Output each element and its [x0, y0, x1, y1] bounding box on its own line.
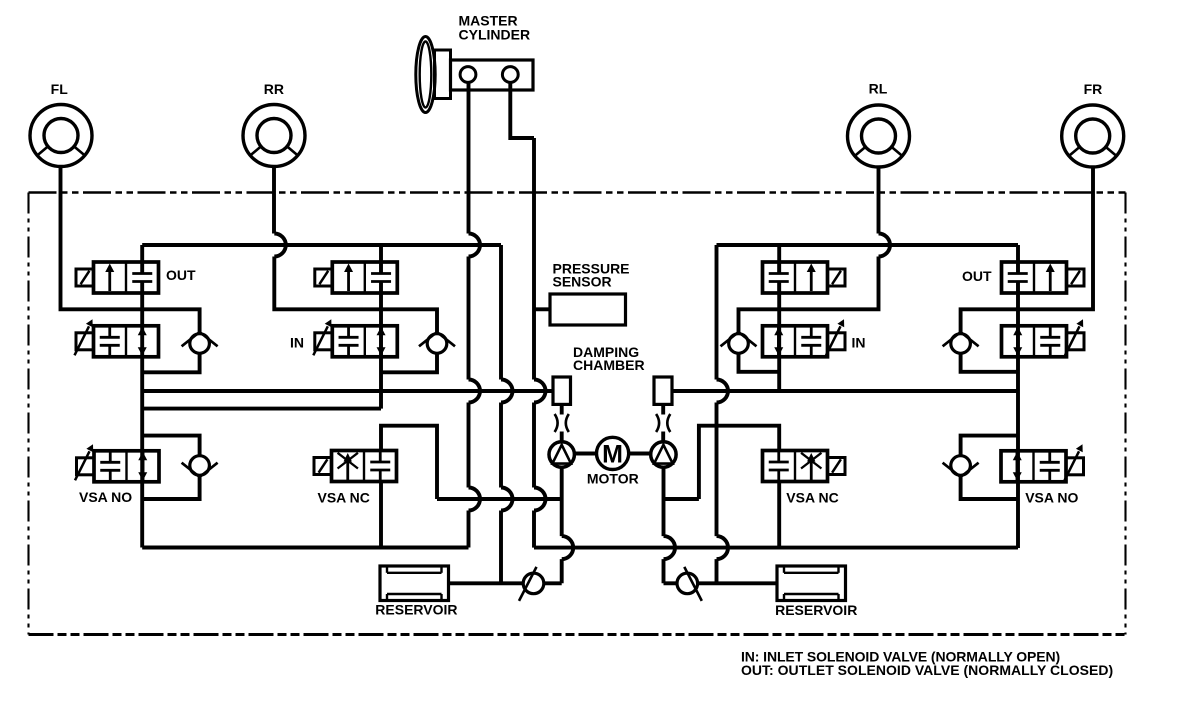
- modulator unit boundary (dash-dot border): [29, 193, 1126, 635]
- check valve VSA NO left (bypass): [182, 456, 218, 477]
- wire suction left to check valve: [544, 581, 562, 585]
- wire VSA NO left check branch top: [142, 436, 199, 456]
- wire hop port2 over pump suction bus: [534, 488, 546, 511]
- wire hop port1 over pump suction bus: [469, 488, 481, 511]
- wire check valve RL return: [739, 353, 780, 372]
- wire outlet bus right: [717, 243, 1019, 247]
- svg-text:OUT: OUT: [962, 268, 992, 284]
- wire hop suction-left over supply bus: [562, 536, 574, 559]
- wire reservoir right line: [698, 581, 777, 585]
- wire check valve FL return: [142, 353, 199, 372]
- wire hop port1 over outlet bus: [469, 234, 481, 257]
- valve VSA NO right: [1001, 444, 1084, 482]
- svg-text:VSA NC: VSA NC: [318, 490, 370, 506]
- svg-text:SENSOR: SENSOR: [553, 274, 612, 290]
- wire reservoir left line: [449, 581, 524, 585]
- svg-text:CHAMBER: CHAMBER: [573, 357, 645, 373]
- wire check valve RR return: [381, 353, 437, 372]
- wire RR branch: [274, 257, 437, 335]
- master cylinder booster disc: [416, 37, 435, 113]
- svg-text:M: M: [602, 440, 623, 468]
- check valve VSA NO right (bypass): [943, 456, 979, 477]
- wire master cylinder port 1 drop: [467, 82, 471, 547]
- wire hop dump-left over pump suction bus: [501, 488, 513, 511]
- pressure sensor: [550, 294, 626, 325]
- wire damping right to orifice: [661, 404, 665, 414]
- valve VSA NO left: [75, 444, 159, 482]
- wire hop dump-right over pump outlet bus: [717, 380, 729, 403]
- wire pump suction bus left: [437, 497, 562, 501]
- wire hop RL over outlet bus: [879, 234, 891, 257]
- wire pump outlet bus left: [142, 389, 553, 393]
- wire VSA NO left check branch bottom: [142, 475, 199, 499]
- check valve RR (bypass): [419, 332, 455, 353]
- valve OUT RR (outlet solenoid): [315, 262, 398, 293]
- valve IN RR (inlet solenoid): [313, 319, 397, 357]
- svg-text:FL: FL: [51, 81, 69, 97]
- svg-text:IN: IN: [852, 335, 866, 351]
- check valve reservoir left: [519, 567, 544, 601]
- valve IN FR (inlet solenoid): [1002, 319, 1085, 357]
- wire RL branch: [739, 257, 879, 335]
- wire FL wheel to IN/OUT node (FL branch): [61, 167, 200, 335]
- wire motor to pump right: [629, 452, 651, 456]
- check valve reservoir right: [677, 567, 702, 601]
- check valve RL (bypass): [721, 332, 757, 353]
- valve OUT RL (outlet solenoid): [763, 262, 846, 293]
- wire check valve FR return: [961, 353, 1018, 372]
- wire VSA NO right check branch top: [961, 436, 1018, 456]
- wire orifice left to pump: [560, 432, 564, 443]
- pump right: [651, 442, 676, 467]
- wire FR branch: [961, 168, 1093, 335]
- wheel RL: [848, 105, 910, 167]
- wire VSA NC right bottom: [777, 482, 781, 548]
- wheel FR: [1062, 105, 1124, 167]
- wire pump right suction: [662, 467, 666, 583]
- wire outlet bus left: [142, 243, 501, 247]
- svg-text:RESERVOIR: RESERVOIR: [375, 602, 457, 618]
- wire master cylinder port 2 drop: [510, 82, 534, 138]
- orifice left: [555, 414, 569, 432]
- wire RL wheel drop: [877, 168, 881, 234]
- wire orifice right to pump: [661, 432, 665, 443]
- check valve FL (bypass): [182, 332, 218, 353]
- wire outlet dump left: [499, 245, 503, 583]
- wire column FL (main line through OUT/IN/VSA NO valves): [140, 245, 144, 548]
- damping chamber right: [654, 377, 672, 404]
- wire column RL: [777, 245, 781, 391]
- svg-text:VSA NO: VSA NO: [79, 489, 132, 505]
- wire pump outlet bus right: [672, 389, 1018, 393]
- svg-text:MOTOR: MOTOR: [587, 471, 639, 487]
- wire hop dump-left over pump outlet bus: [501, 380, 513, 403]
- wire VSA NC right to pump suction: [699, 426, 779, 499]
- svg-text:RR: RR: [264, 81, 284, 97]
- svg-text:RL: RL: [869, 81, 888, 97]
- label DAMPING CHAMBER: [573, 344, 645, 373]
- wheel RR: [243, 105, 305, 167]
- wire RR wheel drop: [272, 167, 276, 234]
- valve OUT FR (outlet solenoid): [1002, 262, 1085, 293]
- wire damping left to orifice: [560, 404, 564, 414]
- label MASTER CYLINDER: [459, 13, 531, 43]
- wire column RR: [379, 245, 383, 409]
- wire pump left to motor: [574, 452, 596, 456]
- legend note: [741, 648, 1113, 678]
- wire pump left suction: [560, 467, 564, 583]
- valve OUT FL (outlet solenoid): [76, 262, 159, 293]
- svg-text:RESERVOIR: RESERVOIR: [775, 602, 857, 618]
- master cylinder port 2: [502, 67, 518, 83]
- wire pressure sensor tap: [534, 307, 550, 311]
- svg-text:OUT: OUTLET SOLENOID VALVE (NO: OUT: OUTLET SOLENOID VALVE (NORMALLY CLO…: [741, 662, 1113, 678]
- wire hop dump-right over supply bus: [717, 536, 729, 559]
- wire column FR: [1016, 245, 1020, 548]
- wire VSA NO right check branch bottom: [961, 475, 1018, 499]
- wire hop port2 over pump outlet bus: [534, 380, 546, 403]
- svg-text:VSA NC: VSA NC: [786, 490, 838, 506]
- wire hop RR over outlet bus: [274, 234, 286, 257]
- wheel FL: [30, 105, 92, 167]
- wire bus B left (column FL to column RR): [142, 407, 381, 411]
- motor M1: [597, 437, 629, 469]
- wire hop suction-right over supply bus: [664, 536, 676, 559]
- master cylinder body: [435, 50, 534, 99]
- svg-text:OUT: OUT: [166, 267, 196, 283]
- reservoir left: [380, 566, 449, 601]
- wire pump suction bus right: [664, 497, 699, 501]
- wire outlet dump right: [715, 245, 719, 583]
- valve IN FL (inlet solenoid): [75, 319, 159, 357]
- reservoir right: [777, 566, 846, 601]
- svg-text:VSA NO: VSA NO: [1025, 490, 1078, 506]
- label PRESSURE SENSOR: [553, 261, 630, 290]
- svg-text:IN: IN: [290, 335, 304, 351]
- svg-text:CYLINDER: CYLINDER: [459, 27, 531, 43]
- wire hop port1 over pump outlet bus: [469, 380, 481, 403]
- pump left: [549, 442, 574, 467]
- valve IN RL (inlet solenoid): [763, 319, 846, 357]
- valve VSA NC right: [763, 451, 846, 482]
- wire supply bus right (to column FR): [534, 546, 1018, 550]
- orifice right: [656, 414, 670, 432]
- valve VSA NC left: [314, 451, 397, 482]
- wire suction right to check valve: [664, 581, 678, 585]
- check valve FR (bypass): [943, 332, 979, 353]
- wire supply bus left (to column FL): [142, 546, 468, 550]
- wire VSA NC left bottom: [379, 482, 383, 548]
- damping chamber left: [553, 377, 571, 404]
- svg-text:FR: FR: [1084, 81, 1103, 97]
- master cylinder port 1: [460, 67, 476, 83]
- wire VSA NC left to pump suction: [381, 426, 437, 499]
